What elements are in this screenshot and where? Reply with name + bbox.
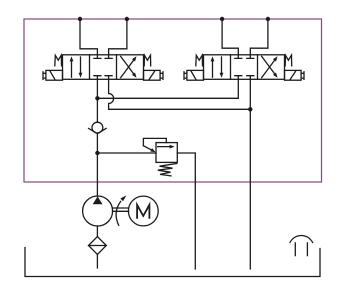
valve V1 center cell closed ports (94, 55, 112, 59)
tank reservoir (25, 248, 320, 277)
junction dot T manifold (248, 107, 252, 111)
wire relief valve outlet to tank (177, 153, 195, 269)
valve V2 right spring (285, 55, 292, 66)
node dot A2 (220, 17, 224, 21)
wire pump suction (96, 226, 98, 237)
valve V1 body (63, 55, 144, 80)
wire valve1 port A from top node (80, 19, 97, 55)
relief valve RV1 internal arrow (158, 146, 173, 148)
drive shaft (113, 208, 129, 211)
wire P branch to valve2 (97, 79, 238, 98)
valve V2 left solenoid (187, 70, 204, 80)
valve V1 left solenoid (46, 70, 63, 80)
motor M1 circle (128, 196, 158, 226)
valve V2 position dividers (231, 55, 258, 80)
junction dot relief branch (95, 151, 99, 155)
check valve CV1 seat (89, 128, 107, 133)
valve V1 left cell down arrow (80, 57, 82, 74)
check valve CV1 circle (92, 122, 103, 133)
valve V2 body (204, 55, 285, 80)
valve V1 right connector (160, 72, 163, 80)
relief valve RV1 body (156, 143, 177, 163)
wire check valve to junction (96, 134, 98, 153)
valve V2 center cell closed ports (235, 55, 254, 59)
wire T return to tank (249, 109, 251, 269)
valve V1 position dividers (90, 55, 117, 80)
wire junction to pump (96, 153, 98, 196)
wire valve2 port B from top node (250, 19, 268, 55)
valve V1 left connector (43, 72, 46, 80)
rotation direction arrow (116, 201, 121, 225)
node dot A1 (78, 17, 82, 21)
junction dot P branch (95, 96, 99, 100)
breather cap arc (290, 235, 313, 242)
valve V2 right connector (301, 72, 304, 80)
valve V2 right cell crossed arrows (262, 59, 276, 78)
valve V1 right solenoid (144, 70, 161, 80)
valve V1 left cell up arrow (71, 60, 73, 77)
relief valve RV1 pilot arrow (143, 146, 152, 151)
wire filter to tank (96, 254, 98, 268)
breather legs (295, 243, 307, 256)
valve V1 left spring (55, 55, 62, 66)
relief valve RV1 pilot flag (143, 138, 166, 145)
manifold block boundary (magenta rectangle) (24, 19, 322, 182)
valve V2 right solenoid (285, 70, 302, 80)
relief valve RV1 spring (158, 164, 177, 176)
node dot B1 (125, 17, 129, 21)
valve V2 left connector (184, 72, 187, 80)
pump P1 outlet triangle (93, 196, 103, 204)
wire valve2 port A from top node (222, 19, 238, 55)
pump P1 circle (83, 196, 113, 226)
wire T line valve1 with hop over P branch (109, 79, 251, 109)
motor M1 label (137, 205, 149, 218)
valve V1 right cell crossed arrows (121, 59, 135, 78)
suction filter F1 element line (89, 245, 107, 247)
suction filter F1 (89, 237, 107, 255)
valve V2 left cell down arrow (221, 57, 223, 74)
node dot B2 (266, 17, 270, 21)
valve V2 left cell up arrow (212, 60, 214, 77)
valve V1 right spring (144, 55, 151, 66)
wire valve2 T port down (249, 79, 251, 109)
wire valve1 port B from top node (109, 19, 127, 55)
wire relief valve inlet (97, 152, 156, 154)
wire P line valve1 to check valve (96, 79, 98, 122)
valve V2 left spring (196, 55, 203, 66)
